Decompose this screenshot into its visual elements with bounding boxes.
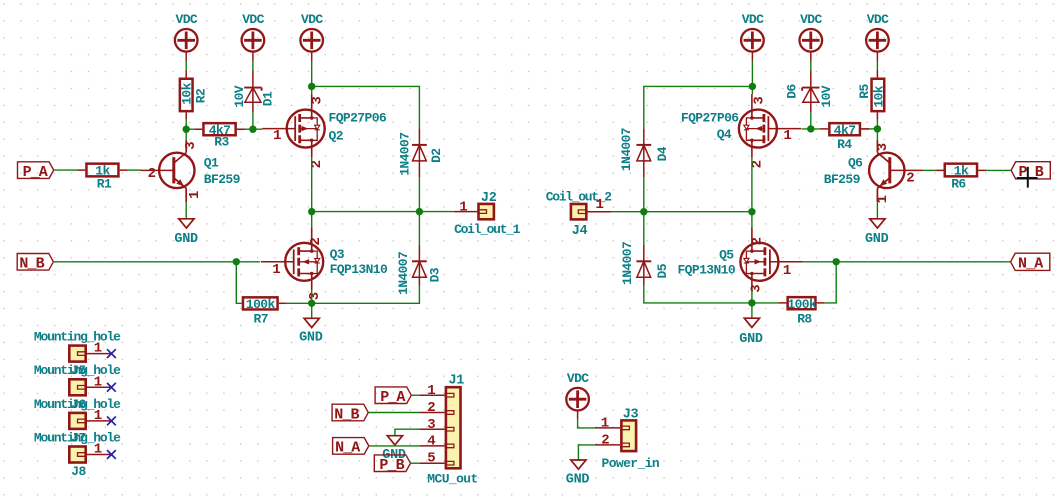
svg-text:Q6: Q6 — [848, 155, 863, 170]
svg-text:FQP13N10: FQP13N10 — [330, 262, 388, 277]
power VDC (above Q4) — [741, 12, 764, 61]
svg-text:1: 1 — [595, 197, 603, 213]
svg-text:P_A: P_A — [23, 164, 48, 181]
connector J4 Coil_out_2 — [546, 190, 613, 239]
wire GND node to D3 — [312, 286, 420, 304]
MOSFET Q3 FQP13N10 (N-channel) — [261, 227, 388, 300]
svg-text:VDC: VDC — [301, 12, 323, 27]
wire R6 to P_B — [986, 169, 1011, 171]
wire R5 to node — [876, 120, 878, 129]
cursor crosshair — [1017, 167, 1038, 188]
svg-text:D6: D6 — [785, 84, 800, 99]
svg-text:P_A: P_A — [380, 389, 405, 406]
svg-text:FQP27P06: FQP27P06 — [329, 111, 387, 126]
svg-text:MCU_out: MCU_out — [427, 472, 477, 487]
junction Q3 source node — [308, 300, 315, 307]
svg-text:GND: GND — [865, 232, 889, 247]
ground GND (Q6) — [865, 219, 889, 247]
svg-text:2: 2 — [427, 400, 435, 416]
svg-text:Q5: Q5 — [719, 248, 734, 263]
power VDC (above R2) — [175, 12, 198, 61]
wire VDC4 to Q4 drain — [751, 61, 753, 95]
svg-text:3: 3 — [310, 96, 326, 104]
wire R2 to node — [185, 120, 187, 129]
svg-text:1N4007: 1N4007 — [396, 252, 411, 295]
svg-text:GND: GND — [174, 232, 198, 247]
wire N_A to J1 pin4 — [369, 445, 420, 447]
diode D5 1N4007 — [620, 242, 670, 286]
junction node at D1/R3 — [249, 126, 256, 133]
svg-text:VDC: VDC — [567, 371, 589, 386]
svg-text:BF259: BF259 — [824, 172, 861, 187]
svg-text:1N4007: 1N4007 — [397, 133, 412, 176]
ground GND (Q3) — [299, 318, 323, 345]
resistor R4 4k7 — [820, 123, 869, 152]
wire VDC1 to R2 — [185, 61, 187, 71]
svg-text:D3: D3 — [427, 267, 442, 282]
flag N_B — [17, 253, 53, 272]
wire N_B node down to R7 — [236, 262, 241, 304]
resistor R8 100k — [778, 297, 824, 327]
svg-text:3: 3 — [183, 141, 199, 149]
wire Q5 gate to N_A — [802, 261, 1011, 263]
MOSFET Q2 FQP27P06 (P-channel) — [262, 94, 387, 168]
svg-text:N_A: N_A — [335, 440, 360, 457]
svg-text:10k: 10k — [872, 85, 887, 107]
svg-text:R5: R5 — [857, 83, 872, 98]
junction D4 coil2 node — [640, 208, 647, 215]
flag N_B (J1 pin2) — [332, 404, 368, 423]
svg-text:Q1: Q1 — [204, 155, 219, 170]
svg-text:BF259: BF259 — [204, 172, 241, 187]
svg-text:1: 1 — [273, 128, 281, 144]
svg-text:Power_in: Power_in — [602, 456, 660, 471]
resistor R3 4k7 — [194, 123, 245, 150]
flag N_A — [1011, 253, 1050, 272]
resistor R1 1k — [77, 163, 128, 191]
wire D1 to node — [252, 112, 254, 129]
wire VDC5 to D6 — [810, 61, 812, 71]
svg-text:2: 2 — [601, 433, 609, 449]
svg-text:1: 1 — [272, 262, 280, 278]
wire Q5 source to GND node — [751, 290, 753, 318]
wire Q3 source to GND node — [311, 290, 313, 318]
svg-text:1N4007: 1N4007 — [620, 242, 635, 285]
wire P_B to J1 pin5 — [411, 462, 420, 464]
svg-text:N_B: N_B — [334, 406, 359, 423]
svg-text:R3: R3 — [214, 135, 229, 150]
power VDC (J3) — [566, 371, 589, 420]
svg-text:1N4007: 1N4007 — [619, 128, 634, 171]
svg-text:2: 2 — [148, 166, 156, 182]
svg-text:Mounting_hole: Mounting_hole — [34, 397, 121, 412]
MOSFET Q5 FQP13N10 (N-channel, mirrored) — [677, 227, 802, 293]
flag N_A (J1 pin4) — [333, 438, 369, 457]
svg-text:5: 5 — [427, 451, 435, 467]
junction node at R2/R3 — [183, 126, 190, 133]
svg-text:R8: R8 — [797, 311, 812, 326]
wire R8 up to N_A line — [825, 262, 837, 303]
wire R4 to R5 node — [869, 128, 877, 130]
svg-text:10V: 10V — [819, 85, 834, 107]
wire coil_out_1 line — [312, 211, 454, 213]
svg-text:2: 2 — [308, 237, 324, 245]
svg-text:2: 2 — [906, 170, 914, 186]
svg-text:Q2: Q2 — [329, 129, 344, 144]
svg-text:4k7: 4k7 — [834, 123, 856, 138]
svg-text:J2: J2 — [481, 191, 497, 206]
zener diode D6 10V — [785, 71, 835, 113]
wire Q4 gate to node row — [802, 128, 869, 130]
wire N_B to Q3 gate — [53, 261, 260, 263]
ground GND (Q1) — [174, 219, 198, 247]
svg-text:FQP13N10: FQP13N10 — [677, 263, 735, 278]
svg-text:1: 1 — [459, 199, 467, 215]
wire node to Q6 collector — [876, 129, 878, 140]
wire Q4 source down to coil2 — [751, 157, 753, 212]
power VDC (above Q2) — [300, 12, 323, 61]
connector J3 Power_in — [595, 408, 660, 471]
svg-text:3: 3 — [307, 292, 323, 300]
transistor Q1 BF259 — [141, 140, 241, 202]
wire R7 to GND node — [287, 302, 312, 304]
flag P_B — [1011, 162, 1050, 181]
power VDC (above R5) — [866, 12, 889, 61]
svg-text:Mounting_hole: Mounting_hole — [34, 431, 121, 446]
mounting hole J6 — [34, 363, 121, 412]
svg-text:D2: D2 — [429, 148, 444, 163]
wire VDC6 to R5 — [876, 61, 878, 71]
wire VDC3 to Q2 drain — [311, 61, 313, 95]
wire N_B to J1 pin2 — [368, 412, 419, 414]
svg-text:1: 1 — [601, 416, 609, 432]
wire Q6 base to R6 — [923, 169, 936, 171]
MOSFET Q4 FQP27P06 (P-channel, mirrored) — [681, 94, 801, 168]
mounting hole J8 — [34, 431, 121, 479]
junction N_A/R8 — [833, 258, 840, 265]
junction Q5 source node — [748, 299, 755, 306]
resistor R7 100k — [243, 297, 287, 326]
wire VDC3 node to D2 top — [312, 86, 420, 128]
wire coil2 down to Q5 drain — [751, 212, 753, 228]
mounting hole J7 — [34, 397, 121, 446]
svg-text:J4: J4 — [572, 224, 588, 239]
ground GND (J1 pin3) — [382, 436, 406, 464]
ground GND (Q5) — [739, 318, 763, 347]
svg-text:1: 1 — [427, 383, 435, 399]
svg-text:VDC: VDC — [742, 12, 764, 27]
svg-text:10k: 10k — [180, 82, 195, 104]
svg-text:1: 1 — [783, 263, 791, 279]
wire P_A to J1 pin1 — [411, 394, 419, 396]
connector J2 Coil_out_1 — [454, 191, 521, 237]
svg-text:GND: GND — [299, 330, 323, 345]
svg-text:3: 3 — [427, 417, 435, 433]
wire node R2/R3 row — [186, 128, 262, 130]
svg-text:3: 3 — [751, 96, 767, 104]
svg-text:Coil_out_1: Coil_out_1 — [454, 222, 521, 237]
svg-text:Mounting_hole: Mounting_hole — [34, 363, 121, 378]
wire J3 pin2 to GND — [578, 445, 595, 460]
diode D4 1N4007 — [619, 128, 670, 177]
svg-text:J1: J1 — [449, 374, 465, 389]
svg-text:P_B: P_B — [379, 457, 404, 474]
wire VDC4 node to D4 top — [644, 86, 753, 128]
wire J4 to coil2 line — [611, 211, 752, 213]
svg-text:1: 1 — [875, 195, 891, 203]
wire coil node to D3 top — [418, 212, 420, 245]
svg-text:1: 1 — [783, 128, 791, 144]
svg-text:3: 3 — [749, 284, 765, 292]
mounting hole J5 — [34, 329, 121, 378]
connector J1 MCU_out — [419, 374, 477, 487]
flag P_B (J1 pin5) — [374, 455, 410, 474]
svg-text:GND: GND — [739, 332, 763, 347]
wire D5 bottom row to Q5 source — [644, 286, 752, 303]
svg-text:FQP27P06: FQP27P06 — [681, 111, 739, 126]
wire coil2 node to D5 top — [643, 212, 645, 245]
svg-text:100k: 100k — [787, 297, 817, 312]
svg-text:1: 1 — [187, 191, 203, 199]
wire VDC2 to D1 — [252, 61, 254, 71]
flag P_A — [18, 162, 54, 181]
wire J1 pin3 to GND — [395, 429, 419, 436]
svg-text:VDC: VDC — [800, 12, 822, 27]
svg-text:D5: D5 — [655, 263, 670, 278]
svg-text:VDC: VDC — [242, 12, 264, 27]
diode D3 1N4007 — [396, 245, 443, 295]
wire node to Q1 collector — [185, 129, 187, 140]
junction D6/R4 — [807, 125, 814, 132]
svg-text:VDC: VDC — [176, 12, 198, 27]
svg-text:N_B: N_B — [19, 256, 44, 273]
svg-text:100k: 100k — [246, 297, 276, 312]
svg-text:R4: R4 — [837, 137, 852, 152]
junction VDC4/Q4 node — [749, 83, 756, 90]
junction N_B/R7 — [233, 258, 240, 265]
svg-text:Mounting_hole: Mounting_hole — [34, 329, 121, 344]
wire P_A to R1 — [54, 169, 77, 171]
transistor Q6 BF259 (mirrored) — [824, 140, 923, 203]
svg-text:Q4: Q4 — [717, 127, 732, 142]
junction D2 coil node — [416, 208, 423, 215]
wire R1 to Q1 base — [128, 169, 142, 171]
svg-text:J8: J8 — [71, 464, 86, 479]
junction R4/R5/Q6 — [874, 125, 881, 132]
wire Q1 emitter to GND — [185, 202, 187, 219]
junction Q2/Q3 coil node — [308, 208, 315, 215]
ground GND (J3) — [566, 460, 590, 488]
wire D4 to coil2 line — [643, 177, 645, 212]
resistor R5 10k — [857, 71, 887, 120]
svg-text:Q3: Q3 — [330, 247, 345, 262]
wire coil line down to Q3 drain — [311, 212, 313, 228]
resistor R6 1k — [936, 163, 987, 191]
svg-text:GND: GND — [566, 473, 590, 488]
svg-text:R1: R1 — [97, 177, 112, 192]
flag P_A (J1 pin1) — [375, 387, 411, 406]
diode D2 1N4007 — [397, 128, 444, 177]
svg-text:10V: 10V — [232, 85, 247, 107]
power VDC (above D6) — [800, 12, 823, 61]
svg-text:VDC: VDC — [867, 12, 889, 27]
svg-text:R7: R7 — [254, 311, 268, 326]
svg-text:4: 4 — [427, 434, 435, 450]
wire VDC7 to J3 pin1 — [578, 420, 595, 428]
wire D2 to coil line — [418, 177, 420, 211]
resistor R2 10k — [180, 71, 209, 120]
svg-text:J3: J3 — [623, 408, 639, 423]
wire Q2 source down to coil line — [311, 157, 313, 212]
wire Q5 source to R8 — [752, 302, 779, 304]
zener diode D1 10V — [232, 71, 276, 113]
svg-text:R6: R6 — [951, 177, 966, 192]
junction node VDC3/Q2 — [308, 83, 315, 90]
wire D6 to node — [810, 112, 812, 128]
svg-text:D1: D1 — [261, 91, 276, 106]
power VDC (above D1) — [242, 12, 265, 61]
svg-text:D4: D4 — [655, 146, 670, 161]
svg-text:N_A: N_A — [1018, 256, 1043, 273]
svg-text:3: 3 — [875, 143, 891, 151]
wire Q6 emitter to GND — [876, 202, 878, 219]
svg-text:2: 2 — [749, 237, 765, 245]
svg-text:R2: R2 — [194, 88, 209, 103]
junction Q4/Q5 coil2 node — [748, 208, 755, 215]
